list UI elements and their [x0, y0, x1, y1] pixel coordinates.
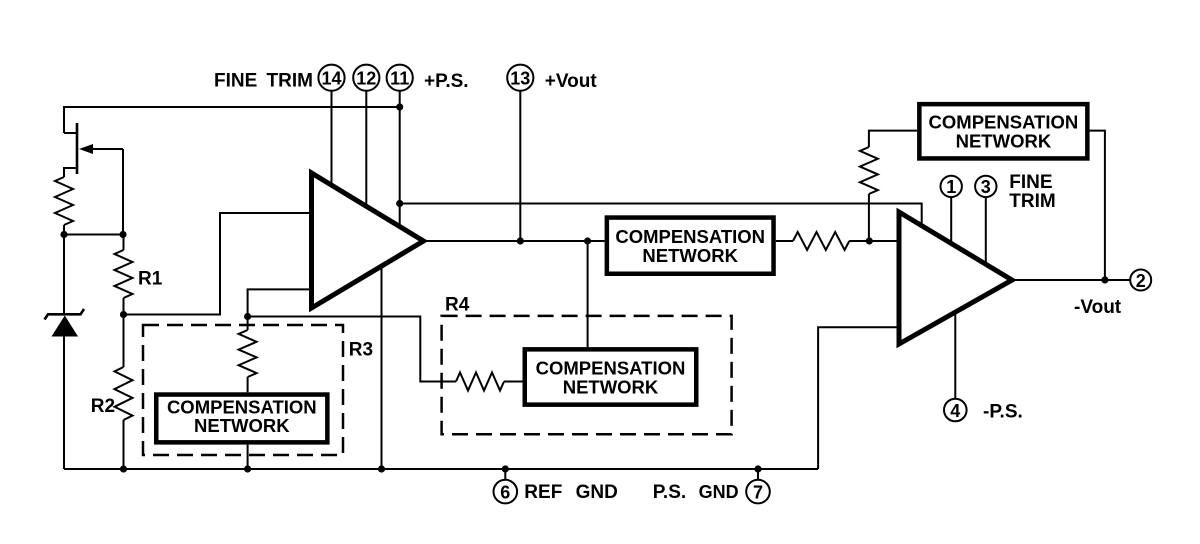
wire gate down to node	[122, 149, 124, 235]
junction rail pin 6	[502, 465, 509, 472]
wire pin 7 lead	[757, 469, 759, 479]
junction rail R2	[120, 465, 127, 472]
junction rail comp A	[244, 465, 251, 472]
svg-text:-Vout: -Vout	[1074, 297, 1122, 318]
resistor R4	[456, 373, 504, 391]
wire comp box A to ground rail	[247, 445, 249, 469]
wire resistor to node A	[63, 225, 65, 235]
zener diode D1 anode triangle	[52, 316, 79, 337]
svg-text:11: 11	[390, 69, 409, 89]
svg-text:NETWORK: NETWORK	[563, 376, 659, 397]
wire pin 11 lead	[399, 91, 401, 227]
wire box C to resistor R5	[776, 240, 793, 242]
junction node A right	[119, 231, 126, 238]
wire node B to op-amp U1 +input	[124, 213, 312, 315]
svg-text:NETWORK: NETWORK	[642, 245, 738, 266]
svg-text:R2: R2	[91, 396, 115, 417]
transistor Q1 gate arrowhead	[79, 144, 93, 154]
wire R5 to node D	[849, 240, 899, 242]
junction output node	[1101, 276, 1108, 283]
pin circle 12	[353, 65, 379, 91]
wire R1 to node B	[123, 298, 125, 315]
wire node A to zener	[63, 235, 65, 315]
resistor R2	[115, 367, 133, 420]
pin circle 14	[318, 65, 344, 91]
svg-text:R4: R4	[445, 295, 470, 316]
svg-text:GND: GND	[576, 482, 618, 503]
pin circle 4	[944, 399, 967, 422]
resistor R3	[239, 330, 257, 377]
svg-text:TRIM: TRIM	[267, 71, 313, 92]
junction node A left	[60, 231, 67, 238]
junction pin13 / output	[517, 237, 524, 244]
wire U1 bottom tap to ground rail	[381, 267, 383, 469]
svg-text:TRIM: TRIM	[1009, 191, 1055, 212]
svg-text:R3: R3	[349, 339, 373, 360]
svg-text:13: 13	[510, 69, 530, 89]
wire rail up to U2 lower input	[818, 327, 899, 469]
wire pin 6 lead	[504, 469, 506, 479]
pin circle 3	[975, 176, 996, 197]
op-amp U1	[312, 173, 424, 308]
resistor R5 (center horizontal)	[793, 232, 849, 250]
svg-text:1: 1	[946, 177, 956, 197]
wire box D left to resistor R6	[869, 131, 917, 147]
wire zener to ground rail	[63, 336, 65, 469]
svg-text:NETWORK: NETWORK	[956, 131, 1052, 152]
wire tap down to compensation network box B	[587, 241, 589, 347]
junction output / comp tap	[584, 237, 591, 244]
pin circle 13	[507, 65, 533, 91]
junction node D	[866, 237, 873, 244]
wire node C to R3	[247, 317, 249, 331]
svg-text:COMPENSATION: COMPENSATION	[615, 226, 765, 247]
junction rail pin 7	[754, 465, 761, 472]
ground rail	[64, 468, 818, 470]
wire U1 lower input	[248, 289, 312, 316]
wire R4 to comp box B	[504, 381, 523, 383]
pin circle 2	[1130, 270, 1151, 291]
pin circle 11	[387, 65, 413, 91]
compensation network box B (R4 area)	[525, 349, 697, 404]
pin circle 7	[746, 480, 770, 504]
svg-text:NETWORK: NETWORK	[194, 415, 290, 436]
svg-text:12: 12	[356, 69, 376, 89]
wire U2 output	[1012, 279, 1130, 281]
junction pin11 / top rail	[396, 103, 403, 110]
pin circle 1	[941, 176, 962, 197]
wire node C to R4 network	[248, 317, 456, 382]
svg-text:+P.S.: +P.S.	[424, 71, 469, 92]
compensation network box A (R3 area)	[156, 395, 327, 443]
transistor Q1 (JFET) channel	[76, 123, 79, 174]
svg-text:+Vout: +Vout	[545, 71, 598, 92]
wire pin 4 lead	[954, 313, 956, 399]
svg-text:REF: REF	[524, 482, 562, 503]
zener diode D1 cathode bar	[45, 309, 85, 320]
junction rail U1 tap	[378, 465, 385, 472]
svg-text:COMPENSATION: COMPENSATION	[536, 357, 686, 378]
compensation network box D (top right)	[919, 104, 1087, 158]
wire feedback line to op-amp U2	[400, 204, 922, 228]
dashed box R3 network	[143, 325, 343, 455]
svg-text:GND: GND	[699, 482, 739, 502]
wire pin 1 lead	[950, 197, 952, 244]
wire node A to R1	[123, 235, 125, 251]
wire R3 to comp box A	[247, 377, 249, 392]
svg-text:R1: R1	[138, 268, 163, 289]
svg-text:14: 14	[321, 69, 341, 89]
wire box D right to output node	[1090, 131, 1105, 280]
svg-text:-P.S.: -P.S.	[983, 401, 1023, 422]
svg-text:7: 7	[753, 482, 763, 502]
junction pin11 / feedback line	[396, 200, 403, 207]
svg-text:3: 3	[981, 177, 991, 197]
dashed box R4 network	[442, 316, 732, 434]
svg-text:FINE: FINE	[214, 71, 257, 92]
svg-text:P.S.: P.S.	[653, 482, 686, 503]
wire node A horizontal	[64, 234, 123, 236]
wire top rail from JFET drain to pin 11	[64, 107, 400, 133]
wire U1 output	[424, 240, 605, 242]
resistor R1	[115, 250, 133, 298]
svg-text:6: 6	[500, 482, 510, 502]
pin circle 6	[494, 480, 518, 504]
compensation network box C (center)	[607, 218, 774, 274]
transistor Q1 source stub	[64, 168, 77, 177]
wire R6 to node D	[868, 194, 870, 241]
svg-text:2: 2	[1136, 271, 1146, 291]
resistor R6 (top right vertical)	[860, 147, 878, 194]
resistor (JFET source)	[55, 177, 73, 225]
svg-text:COMPENSATION: COMPENSATION	[929, 112, 1079, 133]
wire R2 to ground rail	[123, 420, 125, 469]
transistor Q1 gate wire	[82, 148, 123, 150]
wire node B to R2	[123, 315, 125, 368]
op-amp U2	[899, 212, 1012, 344]
wire pin 12 lead	[365, 91, 367, 207]
svg-text:4: 4	[950, 401, 960, 421]
wire pin 14 lead	[331, 91, 333, 186]
wire pin 3 lead	[985, 197, 987, 265]
svg-text:FINE: FINE	[1009, 172, 1052, 193]
junction node B	[120, 311, 127, 318]
transistor Q1 drain stub	[64, 132, 77, 134]
junction node C	[244, 313, 251, 320]
wire pin 13 lead	[519, 91, 521, 242]
